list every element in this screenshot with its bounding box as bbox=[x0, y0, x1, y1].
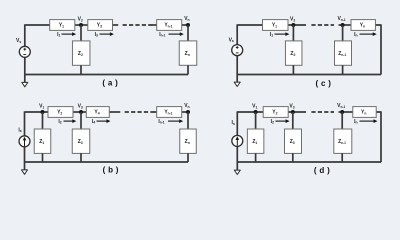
node Vn (b) bbox=[186, 110, 190, 114]
wire Z2 to bottom (a) bbox=[80, 65, 82, 74]
wire dashed continuation (c) bbox=[311, 24, 334, 26]
wire Z3 to bottom (d) bbox=[292, 153, 294, 162]
wire bottom rail (c) bbox=[237, 74, 381, 76]
current In arrow (d) bbox=[354, 119, 377, 125]
wire dashed end to Yn-1 (a) bbox=[152, 24, 157, 26]
wire Zn to bottom (b) bbox=[187, 153, 189, 162]
admittance Y2 (b) bbox=[48, 107, 73, 118]
current I1 arrow (c) bbox=[270, 32, 290, 38]
impedance Zn (a) bbox=[179, 41, 197, 65]
wire dashed continuation (b) bbox=[125, 111, 155, 113]
wire dashed end through Vn-1 to Yn (d) bbox=[339, 111, 353, 113]
current source Is (d) bbox=[232, 135, 243, 146]
admittance Y1 (c) bbox=[263, 20, 289, 31]
wire Y1 to node V2 (c) bbox=[288, 24, 306, 26]
impedance Zn-1 (c) bbox=[335, 41, 352, 65]
wire Yn to right rail (c) bbox=[375, 25, 381, 75]
admittance Yn-1 (b) bbox=[157, 107, 182, 118]
impedance Z1 (b) bbox=[34, 129, 51, 153]
current In-1 arrow (b) bbox=[158, 119, 183, 125]
current I2 arrow (b) bbox=[58, 119, 76, 125]
impedance Z1 (d) bbox=[247, 129, 264, 153]
wire bottom rail (b) bbox=[25, 161, 189, 163]
impedance Z2 (a) bbox=[72, 41, 90, 65]
wire left rail upper (c) bbox=[236, 24, 238, 44]
wire Y1 to node V2 (a) bbox=[75, 24, 88, 26]
current In arrow (c) bbox=[354, 32, 377, 38]
current I1 arrow (a) bbox=[57, 32, 76, 38]
wire V2 to Z2 (a) bbox=[80, 25, 82, 41]
wire left rail upper (d) bbox=[236, 111, 238, 135]
wire bottom rail (a) bbox=[25, 74, 188, 76]
wire dashed continuation (d) bbox=[311, 111, 334, 113]
wire Yn-1 to node Vn (a) bbox=[182, 24, 188, 26]
wire Zn-1 to bottom (d) bbox=[341, 153, 343, 162]
impedance Zn (b) bbox=[180, 129, 197, 153]
wire left rail lower (a) bbox=[24, 57, 26, 82]
wire Vn to Zn (a) bbox=[187, 25, 189, 41]
wire Z3 to bottom (b) bbox=[80, 153, 82, 162]
wire left rail lower (d) bbox=[236, 146, 238, 170]
wire Z1 to bottom (d) bbox=[255, 153, 257, 162]
ground (d) bbox=[234, 170, 240, 174]
current I4 arrow (b) bbox=[92, 119, 111, 125]
node V2 (c) bbox=[291, 23, 295, 27]
wire top rail (a): source to Y1 bbox=[25, 24, 50, 26]
node Vn (a) bbox=[186, 23, 190, 27]
impedance Z2 (c) bbox=[285, 41, 302, 65]
admittance Y3 (a) bbox=[88, 20, 113, 31]
current source Is (b) bbox=[19, 136, 30, 147]
node V3 (b) bbox=[79, 110, 83, 114]
wire V3 to Z3 (b) bbox=[80, 112, 82, 129]
node Vn-1 (d) bbox=[340, 110, 344, 114]
current I3 arrow (a) bbox=[95, 32, 114, 38]
wire left rail lower (b) bbox=[24, 147, 26, 170]
wire dashed end to Yn-1 (b) bbox=[154, 111, 157, 113]
wire Zn-1 to bottom (c) bbox=[342, 65, 344, 74]
impedance Zn-1 (d) bbox=[334, 129, 352, 153]
admittance Yn-1 (a) bbox=[157, 20, 182, 31]
admittance Yn (c) bbox=[351, 20, 375, 31]
impedance Z3 (d) bbox=[285, 129, 302, 153]
wire Vn-1 to Zn-1 (d) bbox=[341, 112, 343, 129]
node Vn-1 (c) bbox=[341, 23, 345, 27]
node V2 (a) bbox=[79, 23, 83, 27]
admittance Yn (d) bbox=[353, 107, 376, 118]
ground (b) bbox=[22, 170, 28, 174]
wire top rail (d): source to Y2 bbox=[237, 111, 263, 113]
wire Vn to Zn (b) bbox=[187, 112, 189, 129]
admittance Y4 (b) bbox=[86, 107, 109, 118]
wire V2 to Z2 (c) bbox=[292, 25, 294, 41]
wire Z1 to bottom (b) bbox=[42, 153, 44, 162]
svg-text:( b ): ( b ) bbox=[103, 165, 119, 174]
wire top rail (b): source to Y2 bbox=[25, 111, 49, 113]
voltage source Vs (a) bbox=[19, 46, 30, 57]
ground (c) bbox=[234, 82, 240, 86]
wire dashed continuation (a) bbox=[123, 24, 153, 26]
wire bottom rail (d) bbox=[237, 161, 381, 163]
wire V1 to Z1 (d) bbox=[255, 112, 257, 129]
wire Y2 to Y4 (b) bbox=[73, 111, 86, 113]
wire Y4 to dashed break (b) bbox=[109, 111, 120, 113]
admittance Y2 (d) bbox=[263, 107, 288, 118]
current I2 arrow (d) bbox=[271, 119, 290, 125]
wire Z2 to bottom (c) bbox=[292, 65, 294, 74]
admittance Y1 (a) bbox=[50, 20, 75, 31]
wire dashed end through Vn-1 to Yn (c) bbox=[339, 24, 352, 26]
wire top rail (c): source to Y1 bbox=[237, 24, 262, 26]
svg-text:( a ): ( a ) bbox=[102, 79, 118, 88]
wire left rail upper (a) bbox=[24, 24, 26, 46]
node V3 (d) bbox=[291, 110, 295, 114]
wire Yn to right rail (d) bbox=[376, 112, 381, 162]
wire V3 to Z3 (d) bbox=[292, 112, 294, 129]
wire left rail upper (b) bbox=[24, 111, 26, 135]
wire Zn to bottom (a) bbox=[187, 65, 189, 74]
svg-text:( c ): ( c ) bbox=[316, 79, 332, 88]
wire V1 to Z1 (b) bbox=[42, 112, 44, 129]
current In-1 arrow (a) bbox=[159, 32, 184, 38]
wire Y3 to dashed break (a) bbox=[113, 24, 119, 26]
wire Y2 to node V3 (d) bbox=[288, 111, 306, 113]
wire Vn-1 to Zn-1 (c) bbox=[342, 25, 344, 41]
voltage source Vs (c) bbox=[232, 45, 243, 56]
impedance Z3 (b) bbox=[72, 129, 90, 153]
node V1 (b) bbox=[41, 110, 45, 114]
ground (a) bbox=[22, 82, 28, 86]
svg-text:( d ): ( d ) bbox=[314, 166, 330, 175]
wire Yn-1 to node Vn (b) bbox=[182, 111, 188, 113]
wire left rail lower (c) bbox=[236, 56, 238, 83]
node V1 (d) bbox=[254, 110, 258, 114]
